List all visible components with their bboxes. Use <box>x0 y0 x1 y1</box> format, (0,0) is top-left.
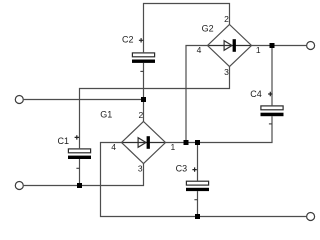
svg-text:4: 4 <box>111 142 116 152</box>
svg-text:1: 1 <box>256 45 261 55</box>
svg-text:2: 2 <box>224 14 229 24</box>
svg-text:C3: C3 <box>176 164 188 174</box>
svg-text:3: 3 <box>138 164 143 174</box>
svg-text:4: 4 <box>197 45 202 55</box>
svg-text:C2: C2 <box>122 34 134 44</box>
svg-text:3: 3 <box>224 67 229 77</box>
svg-text:G1: G1 <box>100 110 112 120</box>
svg-text:C1: C1 <box>58 136 70 146</box>
svg-text:1: 1 <box>171 142 176 152</box>
svg-text:C4: C4 <box>250 89 262 99</box>
svg-text:2: 2 <box>138 110 143 120</box>
svg-text:G2: G2 <box>202 24 214 34</box>
